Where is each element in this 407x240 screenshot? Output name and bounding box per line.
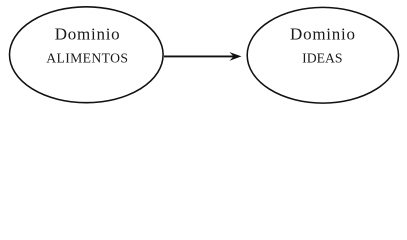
- svg-text:Dominio: Dominio: [290, 24, 356, 43]
- node Dominio ALIMENTOS (left ellipse): [10, 7, 164, 103]
- node Dominio IDEAS (right ellipse): [247, 7, 398, 103]
- svg-text:Dominio: Dominio: [55, 24, 121, 43]
- wire arrow from ALIMENTOS to IDEAS: [164, 52, 242, 61]
- svg-text:IDEAS: IDEAS: [302, 51, 342, 66]
- svg-text:ALIMENTOS: ALIMENTOS: [46, 50, 128, 65]
